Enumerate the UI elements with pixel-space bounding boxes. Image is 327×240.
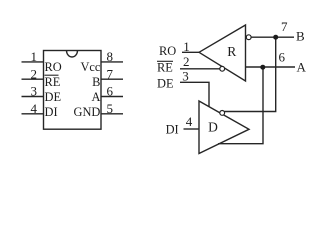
- svg-text:RO: RO: [45, 60, 62, 74]
- svg-text:Vcc: Vcc: [80, 60, 100, 74]
- svg-text:GND: GND: [74, 105, 101, 119]
- svg-text:RE: RE: [45, 75, 61, 89]
- svg-text:7: 7: [107, 66, 114, 81]
- svg-text:DI: DI: [166, 122, 179, 136]
- svg-text:5: 5: [107, 101, 114, 116]
- svg-text:4: 4: [31, 101, 38, 116]
- svg-text:3: 3: [31, 84, 38, 99]
- svg-text:8: 8: [107, 49, 114, 64]
- svg-text:1: 1: [183, 39, 190, 54]
- svg-text:RE: RE: [157, 60, 173, 74]
- svg-text:6: 6: [107, 84, 114, 99]
- svg-text:B: B: [296, 29, 305, 44]
- svg-text:7: 7: [281, 19, 288, 34]
- svg-text:B: B: [92, 75, 100, 89]
- svg-text:RO: RO: [159, 44, 176, 58]
- svg-text:1: 1: [31, 49, 38, 64]
- svg-text:3: 3: [182, 68, 189, 83]
- svg-text:DI: DI: [45, 105, 58, 119]
- svg-text:DE: DE: [157, 77, 174, 91]
- svg-text:2: 2: [31, 66, 38, 81]
- svg-text:2: 2: [183, 54, 190, 69]
- svg-text:A: A: [297, 60, 307, 75]
- svg-text:R: R: [227, 44, 236, 59]
- svg-text:6: 6: [279, 50, 286, 65]
- svg-text:D: D: [208, 120, 218, 135]
- svg-text:4: 4: [186, 114, 193, 129]
- svg-text:A: A: [91, 90, 100, 104]
- svg-text:DE: DE: [45, 90, 62, 104]
